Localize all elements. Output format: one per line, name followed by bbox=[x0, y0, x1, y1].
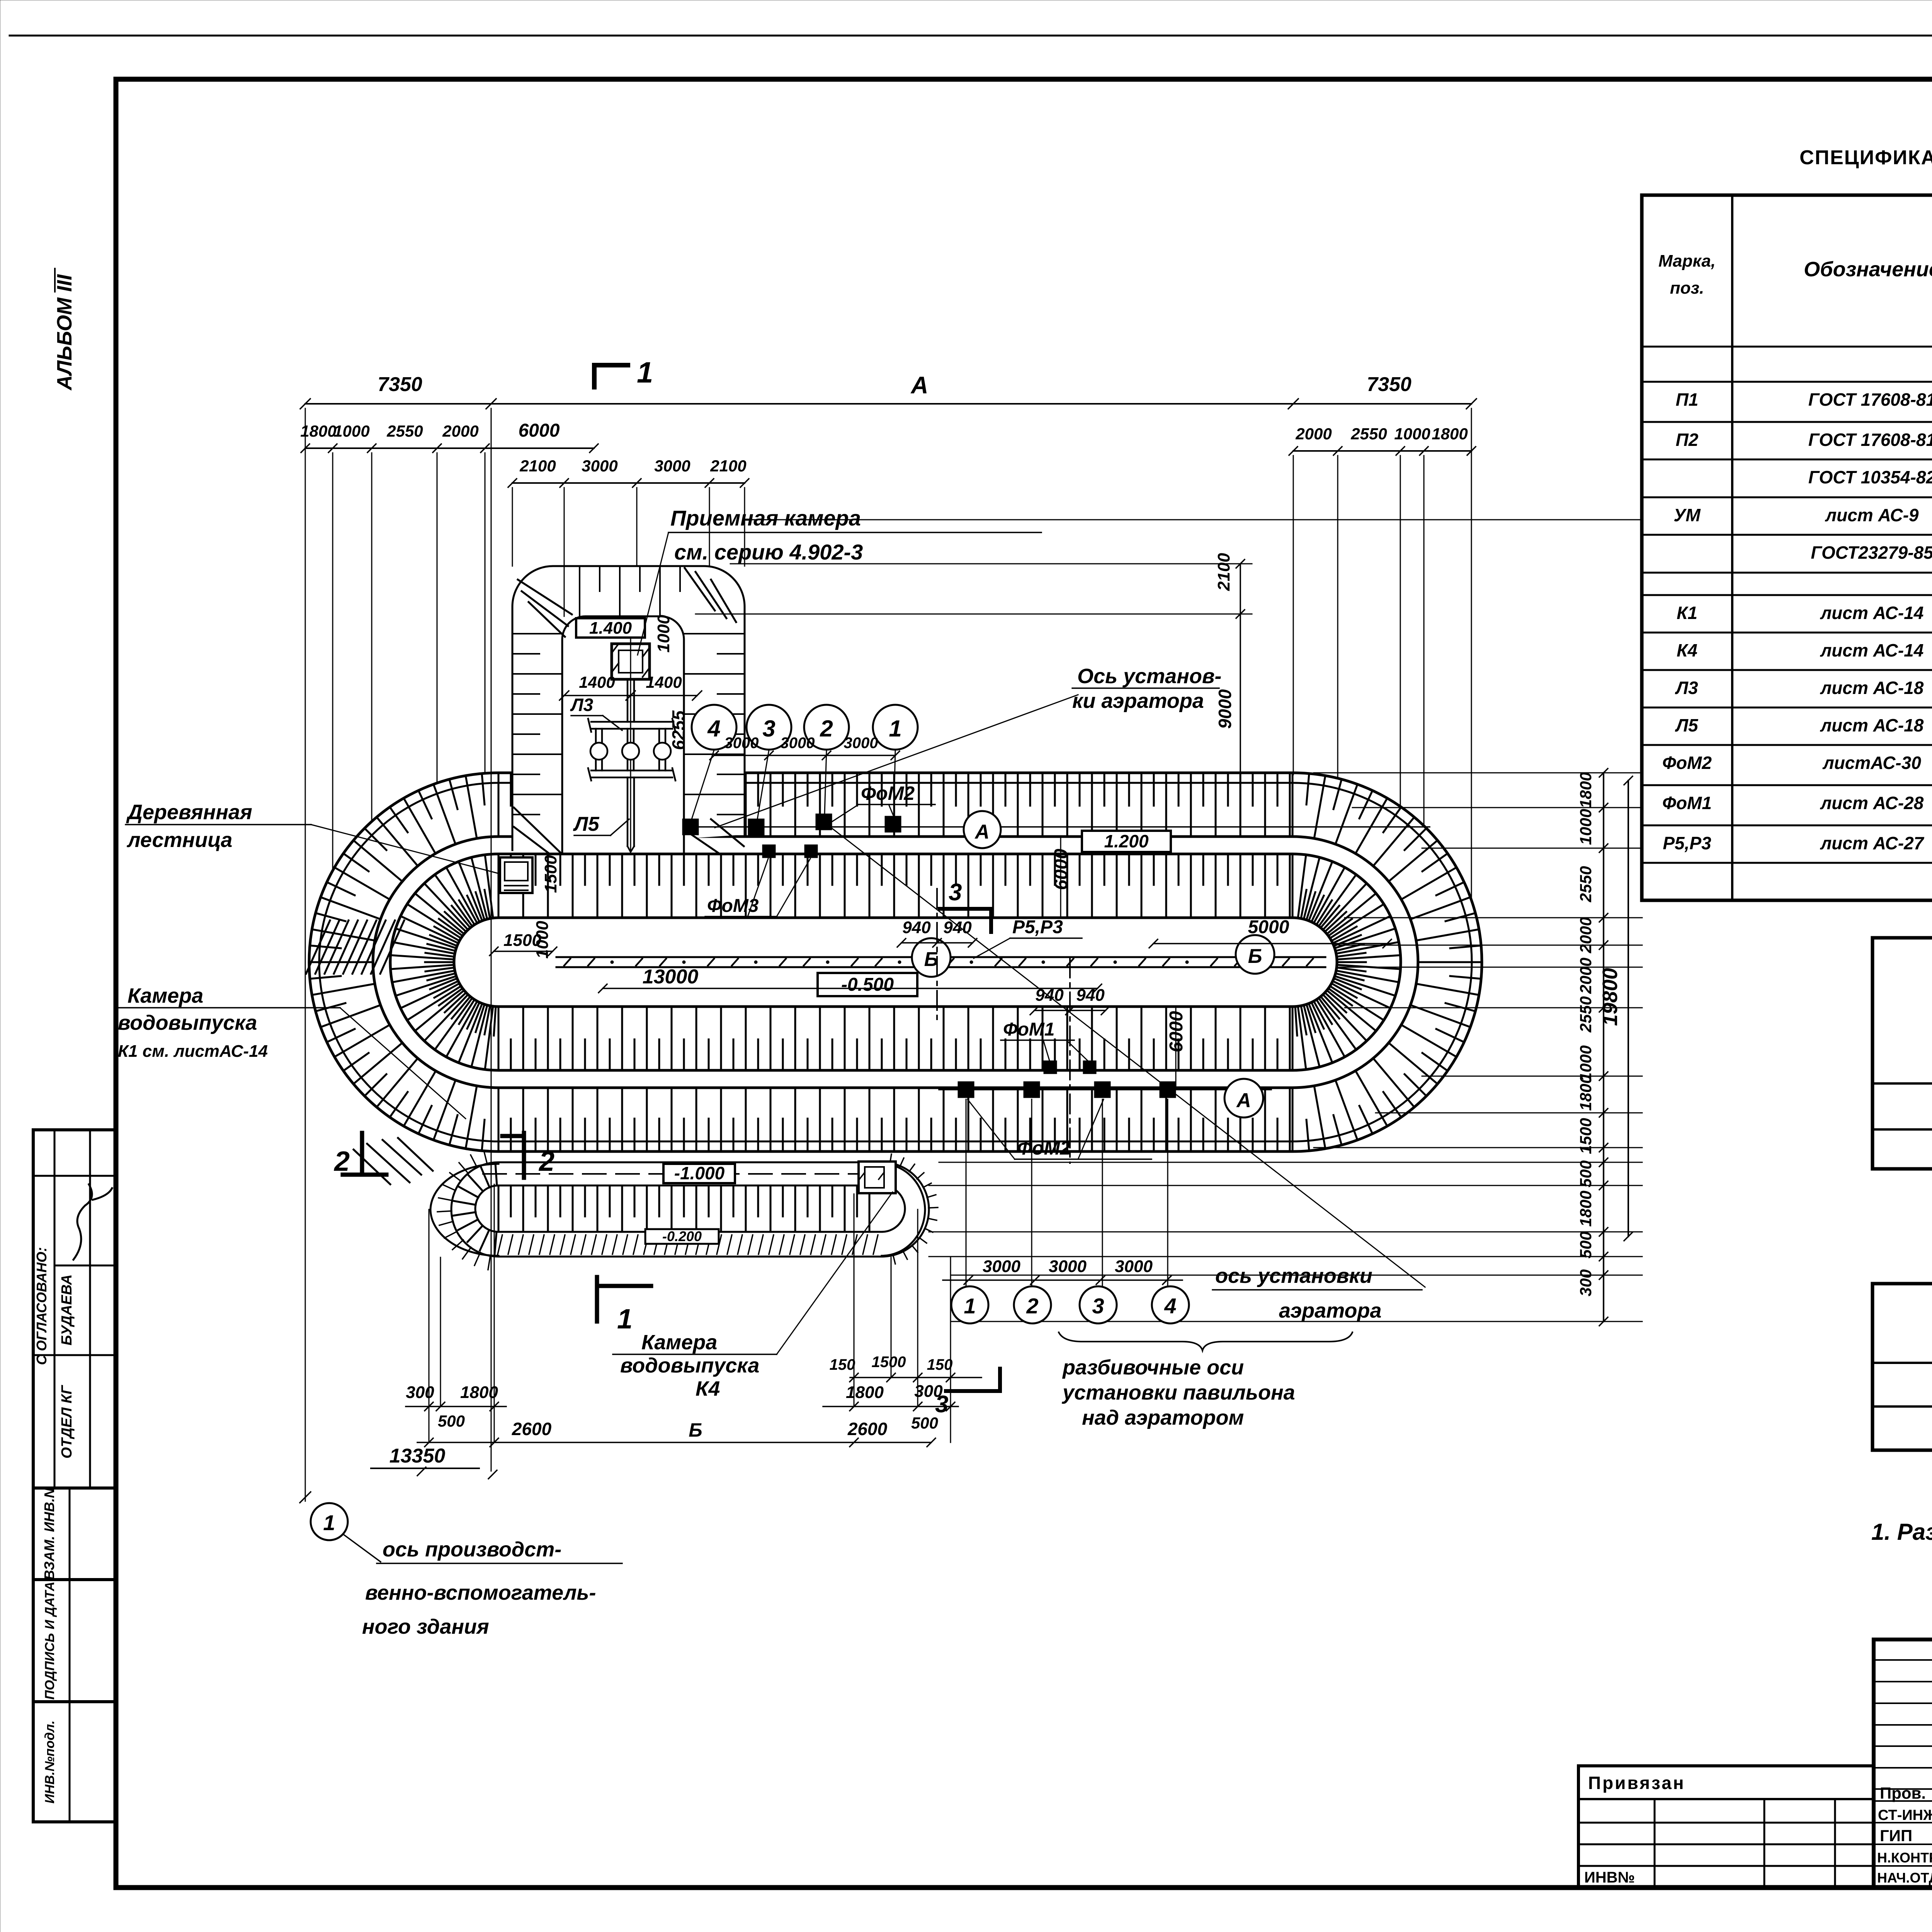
svg-text:П1: П1 bbox=[1676, 389, 1699, 410]
appendix dim line 2100 3000 3000 2100 bbox=[512, 482, 745, 484]
svg-text:2: 2 bbox=[820, 716, 833, 742]
ring channel outer wall bbox=[373, 837, 1418, 1088]
ring outer band hatch right cap bbox=[1292, 1088, 1294, 1151]
section mark 2 right bbox=[522, 1133, 526, 1178]
top dim line small left 1800 1000 2550 2000 6000 bbox=[305, 447, 594, 449]
elevation box 1.400 bbox=[576, 618, 645, 638]
svg-text:ОТДЕЛ КГ: ОТДЕЛ КГ bbox=[59, 1385, 75, 1459]
svg-text:см. серию 4.902-3: см. серию 4.902-3 bbox=[674, 540, 863, 564]
appendix hatch left leg bbox=[512, 633, 562, 634]
elevation box -0.200 bbox=[645, 1229, 719, 1244]
loop left cap outer berm arc bbox=[430, 1164, 498, 1256]
svg-text:7350: 7350 bbox=[378, 373, 422, 396]
svg-text:2100: 2100 bbox=[1214, 553, 1233, 591]
svg-text:2: 2 bbox=[538, 1146, 554, 1177]
svg-text:6000: 6000 bbox=[519, 420, 560, 441]
FoM3 squares bbox=[762, 845, 776, 858]
appendix hatch top band bbox=[579, 566, 580, 616]
svg-text:19800: 19800 bbox=[1599, 968, 1622, 1026]
svg-text:Р5,Р3: Р5,Р3 bbox=[1012, 917, 1063, 937]
svg-text:ГОСТ23279-85: ГОСТ23279-85 bbox=[1811, 543, 1932, 563]
svg-text:2000: 2000 bbox=[1295, 425, 1332, 443]
ring outer edge bbox=[309, 773, 1482, 1151]
svg-text:2: 2 bbox=[1026, 1294, 1038, 1318]
svg-text:1500: 1500 bbox=[1577, 1118, 1595, 1154]
svg-text:500: 500 bbox=[1577, 1160, 1595, 1187]
signature squiggle bbox=[73, 1184, 92, 1260]
vzam inv stamp box bbox=[33, 1488, 116, 1580]
svg-text:К1: К1 bbox=[1677, 603, 1697, 623]
circle A bottom bbox=[1225, 1079, 1263, 1117]
brace under circles bbox=[1059, 1332, 1352, 1350]
circle B left bbox=[912, 938, 951, 977]
svg-text:УМ: УМ bbox=[1673, 505, 1701, 525]
svg-text:ось производст-: ось производст- bbox=[383, 1538, 561, 1561]
loop mid band fan left cap bbox=[495, 1232, 497, 1254]
svg-text:2550: 2550 bbox=[1350, 425, 1387, 443]
loop dashed center line bbox=[483, 1173, 877, 1175]
svg-text:Б: Б bbox=[1248, 945, 1262, 968]
svg-text:Л5: Л5 bbox=[573, 813, 600, 835]
svg-text:СПЕЦИФИКАЦИЯ К СХЕМЕ РАСПОЛОЖЕ: СПЕЦИФИКАЦИЯ К СХЕМЕ РАСПОЛОЖЕНИЯ ЦОКА bbox=[1799, 146, 1932, 169]
svg-text:300: 300 bbox=[1577, 1269, 1595, 1296]
bottom dim 3000 x3 bbox=[943, 1279, 1182, 1281]
loop outer slope hatch left cap bbox=[488, 1255, 490, 1270]
loop right cap outer berm arc bbox=[882, 1164, 925, 1256]
svg-text:1800: 1800 bbox=[846, 1383, 884, 1402]
svg-text:940: 940 bbox=[943, 918, 972, 937]
svg-text:150: 150 bbox=[927, 1356, 953, 1373]
section mark 1 top bbox=[592, 365, 597, 387]
ring inner band hatch top straight bbox=[498, 854, 500, 918]
ring island edge bbox=[454, 918, 1337, 1007]
svg-text:Л5: Л5 bbox=[1675, 715, 1699, 735]
valve circles bbox=[590, 743, 607, 760]
svg-text:1: 1 bbox=[964, 1294, 976, 1318]
ring inner band hatch bottom straight bbox=[498, 1007, 500, 1070]
svg-text:3000: 3000 bbox=[582, 457, 617, 475]
appendix inner wall white channel bbox=[562, 616, 684, 852]
ring outer band hatch bottom straight bbox=[498, 1088, 500, 1151]
razmery table grid bbox=[1872, 938, 1932, 1169]
svg-text:разбивочные оси: разбивочные оси bbox=[1062, 1356, 1244, 1379]
svg-text:поз.: поз. bbox=[1670, 279, 1704, 298]
svg-text:1000: 1000 bbox=[654, 615, 673, 653]
svg-text:лист АС-27: лист АС-27 bbox=[1820, 833, 1925, 853]
svg-text:3000: 3000 bbox=[1049, 1257, 1087, 1276]
svg-text:лист АС-18: лист АС-18 bbox=[1820, 678, 1924, 698]
outer trim line top bbox=[10, 35, 1932, 37]
svg-text:лист АС-18: лист АС-18 bbox=[1820, 715, 1924, 735]
svg-text:Р5,Р3: Р5,Р3 bbox=[1663, 833, 1711, 853]
svg-text:Деревянная: Деревянная bbox=[126, 801, 252, 824]
svg-text:3000: 3000 bbox=[724, 735, 759, 752]
svg-text:1000: 1000 bbox=[333, 422, 369, 440]
dim 1500 island tip bbox=[494, 951, 553, 952]
svg-text:13000: 13000 bbox=[643, 966, 699, 988]
dim 1400 1400 at chamber bbox=[564, 695, 697, 696]
loop mid band hatch bbox=[498, 1185, 500, 1232]
divider wall strip P5 P3 bbox=[556, 956, 1325, 958]
svg-text:1500: 1500 bbox=[541, 855, 560, 893]
vertical chain 2100 9000 bbox=[1240, 564, 1241, 781]
svg-text:Л3: Л3 bbox=[570, 695, 594, 715]
appendix corner hatch bbox=[522, 591, 568, 626]
svg-text:А: А bbox=[910, 372, 929, 399]
loop channel lines bbox=[498, 1185, 882, 1187]
loop outer slope hatch bottom bbox=[498, 1235, 502, 1254]
svg-text:3: 3 bbox=[1092, 1294, 1104, 1318]
horizontal extension lines right bbox=[746, 519, 1642, 520]
svg-text:940: 940 bbox=[902, 918, 931, 937]
ring outer band hatch left cap bbox=[498, 1088, 500, 1151]
loop outer stadium white fill bbox=[451, 1162, 929, 1257]
svg-text:Б: Б bbox=[689, 1419, 702, 1441]
svg-text:ПОДПИСЬ И ДАТА: ПОДПИСЬ И ДАТА bbox=[43, 1582, 57, 1700]
axis circle 1 bottom left bbox=[311, 1503, 348, 1540]
svg-text:лист АС-14: лист АС-14 bbox=[1820, 603, 1924, 623]
appendix hatch right leg bbox=[684, 633, 745, 634]
overall dim 19800 bbox=[1628, 781, 1629, 1236]
svg-text:Привязан: Привязан bbox=[1588, 1773, 1685, 1793]
outlet chamber K4 square bbox=[859, 1162, 896, 1193]
svg-text:3: 3 bbox=[935, 1391, 948, 1418]
svg-text:-0.500: -0.500 bbox=[841, 975, 894, 995]
elevation box -1.000 bbox=[663, 1164, 735, 1183]
bottom axis circles 1 2 3 4 bbox=[951, 1286, 988, 1323]
svg-text:1: 1 bbox=[323, 1510, 335, 1535]
svg-text:500: 500 bbox=[911, 1414, 938, 1432]
lotok L5 pipe bbox=[627, 777, 629, 846]
svg-text:лист АС-28: лист АС-28 bbox=[1820, 793, 1924, 813]
ground hatch junction left bbox=[367, 1144, 410, 1182]
svg-text:лист АС-9: лист АС-9 bbox=[1825, 505, 1918, 525]
svg-text:над аэратором: над аэратором bbox=[1082, 1406, 1244, 1429]
svg-text:ки аэратора: ки аэратора bbox=[1072, 689, 1204, 713]
svg-text:Приемная камера: Приемная камера bbox=[670, 506, 861, 530]
svg-text:венно-вспомогатель-: венно-вспомогатель- bbox=[365, 1581, 596, 1604]
svg-text:9000: 9000 bbox=[1215, 689, 1235, 729]
svg-text:4: 4 bbox=[707, 716, 720, 742]
svg-text:-0.200: -0.200 bbox=[662, 1228, 702, 1244]
svg-text:Камера: Камера bbox=[128, 984, 203, 1007]
bottom axis vertical lines bbox=[966, 1099, 967, 1287]
svg-text:листАС-30: листАС-30 bbox=[1822, 753, 1921, 773]
svg-text:лист АС-14: лист АС-14 bbox=[1820, 640, 1924, 660]
dim 940 940 lower bbox=[1034, 1010, 1105, 1011]
svg-text:А: А bbox=[974, 821, 990, 843]
svg-text:1800: 1800 bbox=[1577, 1190, 1595, 1226]
svg-text:1000: 1000 bbox=[1577, 809, 1595, 845]
svg-text:1.400: 1.400 bbox=[589, 619, 632, 638]
dim 5000 bbox=[1153, 943, 1387, 944]
distribution manifold L3 bbox=[591, 721, 672, 723]
svg-text:установки павильона: установки павильона bbox=[1061, 1381, 1295, 1404]
privyazan grid bbox=[1578, 1822, 1874, 1824]
ring outer band hatch top straight bbox=[498, 773, 500, 837]
svg-text:1.200: 1.200 bbox=[1104, 831, 1149, 851]
ring inner band fan left cap bbox=[498, 1007, 500, 1070]
ring inner band fan right cap bbox=[1292, 1007, 1294, 1070]
svg-text:940: 940 bbox=[1076, 986, 1105, 1005]
svg-text:С ОГЛАСОВАНО:: С ОГЛАСОВАНО: bbox=[34, 1247, 49, 1365]
svg-text:500: 500 bbox=[438, 1412, 465, 1430]
dim 150 1500 150 bbox=[850, 1377, 981, 1378]
axis dim 3000 x3 bbox=[714, 755, 895, 756]
ladder square bbox=[500, 857, 532, 893]
overline on III bbox=[54, 269, 56, 292]
svg-text:2600: 2600 bbox=[847, 1419, 888, 1439]
FoM2 squares bottom row bbox=[958, 1082, 974, 1098]
appendix outer shape white fill bbox=[512, 566, 745, 850]
svg-text:АЛЬБОМ III: АЛЬБОМ III bbox=[53, 274, 76, 391]
svg-text:Ось установ-: Ось установ- bbox=[1077, 665, 1221, 688]
svg-text:2100: 2100 bbox=[710, 457, 746, 475]
upper aerator axis dash dot bbox=[936, 889, 938, 1020]
svg-text:водовыпуска: водовыпуска bbox=[118, 1011, 257, 1034]
svg-text:ИНВ.№подл.: ИНВ.№подл. bbox=[43, 1720, 57, 1803]
svg-text:1400: 1400 bbox=[579, 673, 615, 691]
elevation box -0.500 bbox=[818, 973, 917, 996]
svg-text:3000: 3000 bbox=[1115, 1257, 1153, 1276]
svg-text:ГИП: ГИП bbox=[1880, 1827, 1912, 1845]
FoM1 squares bbox=[1044, 1061, 1057, 1074]
svg-text:ГОСТ 10354-82: ГОСТ 10354-82 bbox=[1808, 467, 1932, 487]
inlet pipe bbox=[627, 679, 629, 722]
svg-text:Н.КОНТР: Н.КОНТР bbox=[1877, 1850, 1932, 1866]
inv n podl stamp box bbox=[33, 1702, 116, 1822]
svg-text:1800: 1800 bbox=[1577, 772, 1595, 808]
privyazan box bbox=[1578, 1764, 1874, 1767]
svg-text:Л3: Л3 bbox=[1675, 678, 1698, 698]
right dim chain bbox=[1603, 773, 1604, 1321]
svg-text:1000: 1000 bbox=[533, 921, 552, 959]
svg-text:3000: 3000 bbox=[781, 735, 815, 752]
earthwork table grid bbox=[1872, 1284, 1932, 1450]
title block outer bbox=[1874, 1639, 1932, 1888]
svg-text:1: 1 bbox=[889, 716, 901, 742]
svg-text:ФоМ1: ФоМ1 bbox=[1003, 1019, 1054, 1040]
loop extension verticals bbox=[429, 1209, 430, 1442]
circle A top bbox=[964, 811, 1001, 848]
svg-text:2000: 2000 bbox=[1577, 957, 1595, 994]
svg-text:Марка,: Марка, bbox=[1658, 252, 1716, 270]
svg-text:1800: 1800 bbox=[1432, 425, 1468, 443]
svg-text:2: 2 bbox=[333, 1146, 350, 1177]
svg-text:ФоМ2: ФоМ2 bbox=[1017, 1137, 1071, 1159]
axis leader lines down to squares bbox=[692, 750, 714, 819]
svg-text:водовыпуска: водовыпуска bbox=[620, 1354, 759, 1377]
ring channel inner wall bbox=[390, 854, 1401, 1070]
axis circles 4 3 2 1 bbox=[692, 705, 736, 750]
svg-text:500: 500 bbox=[1577, 1231, 1595, 1259]
lower collector bbox=[591, 770, 672, 772]
svg-text:ось установки: ось установки bbox=[1215, 1264, 1372, 1287]
svg-text:4: 4 bbox=[1164, 1294, 1176, 1318]
svg-text:300: 300 bbox=[406, 1383, 434, 1402]
loop outer slope hatch right cap bbox=[890, 1154, 891, 1163]
spec table grid bbox=[1642, 195, 1932, 900]
svg-text:Пров.: Пров. bbox=[1880, 1784, 1926, 1802]
svg-text:А: А bbox=[1236, 1089, 1251, 1112]
loop bottom dim line 2 bbox=[417, 1442, 931, 1443]
loop bottom dim lines 300 1800 bbox=[406, 1406, 506, 1407]
svg-text:2100: 2100 bbox=[519, 457, 556, 475]
svg-text:Обозначение: Обозначение bbox=[1804, 258, 1932, 281]
svg-text:3: 3 bbox=[949, 879, 962, 906]
svg-text:3000: 3000 bbox=[844, 735, 878, 752]
ring outer edge second line bbox=[319, 783, 1472, 1141]
svg-text:ФоМ2: ФоМ2 bbox=[1662, 753, 1712, 773]
receiving chamber square bbox=[612, 644, 650, 679]
svg-text:150: 150 bbox=[830, 1356, 855, 1373]
svg-text:2000: 2000 bbox=[442, 422, 478, 440]
section mark 1 bottom bbox=[595, 1277, 599, 1321]
svg-text:аэратора: аэратора bbox=[1279, 1299, 1381, 1322]
podpis i data stamp box bbox=[33, 1580, 116, 1702]
svg-text:П2: П2 bbox=[1676, 430, 1699, 450]
svg-text:1500: 1500 bbox=[872, 1354, 906, 1371]
svg-text:7350: 7350 bbox=[1367, 373, 1412, 396]
dim 940 940 upper bbox=[901, 942, 973, 944]
top dim line 7350 A 7350 bbox=[305, 403, 1471, 405]
svg-text:лестница: лестница bbox=[126, 828, 232, 852]
svg-text:2600: 2600 bbox=[512, 1419, 552, 1439]
extension lines appendix top to chain bbox=[730, 563, 1252, 565]
aerator axis line top through squares bbox=[684, 826, 1430, 828]
svg-text:1800: 1800 bbox=[1577, 1075, 1595, 1111]
svg-text:2550: 2550 bbox=[1577, 866, 1595, 902]
svg-text:ГОСТ 17608-81: ГОСТ 17608-81 bbox=[1808, 389, 1932, 410]
svg-text:1000: 1000 bbox=[1394, 425, 1430, 443]
svg-text:2000: 2000 bbox=[1577, 917, 1595, 953]
svg-text:СТ-ИНЖ.: СТ-ИНЖ. bbox=[1878, 1807, 1932, 1823]
circle B right bbox=[1236, 935, 1274, 974]
svg-text:К4: К4 bbox=[1677, 640, 1697, 660]
svg-text:1: 1 bbox=[637, 356, 653, 389]
svg-text:3000: 3000 bbox=[983, 1257, 1020, 1276]
aerator axis line bottom through squares bbox=[939, 1089, 1271, 1090]
svg-text:2550: 2550 bbox=[386, 422, 423, 440]
svg-text:1: 1 bbox=[617, 1304, 633, 1335]
svg-text:2550: 2550 bbox=[1577, 996, 1595, 1032]
svg-text:ВЗАМ. ИНВ.N: ВЗАМ. ИНВ.N bbox=[41, 1488, 57, 1580]
svg-text:К1 см. листАС-14: К1 см. листАС-14 bbox=[118, 1042, 268, 1061]
dim 13000 bbox=[603, 988, 1097, 989]
chamber axis line bbox=[630, 638, 631, 852]
svg-text:ГОСТ 17608-81: ГОСТ 17608-81 bbox=[1808, 430, 1932, 450]
svg-text:6255: 6255 bbox=[668, 710, 689, 750]
svg-text:ФоМ2: ФоМ2 bbox=[861, 782, 915, 804]
FoM2 squares top row bbox=[682, 819, 699, 835]
svg-text:3000: 3000 bbox=[654, 457, 690, 475]
svg-text:1. Разрезы см. на листе АС-9.: 1. Разрезы см. на листе АС-9. bbox=[1871, 1519, 1932, 1545]
svg-text:ФоМ1: ФоМ1 bbox=[1662, 793, 1712, 813]
lower aerator axis dash dot bbox=[1069, 958, 1071, 1163]
svg-text:ИНВ№: ИНВ№ bbox=[1584, 1869, 1635, 1886]
svg-text:3: 3 bbox=[762, 716, 775, 742]
extension lines from top dims bbox=[305, 408, 306, 1501]
svg-text:13350: 13350 bbox=[389, 1445, 446, 1467]
svg-text:К4: К4 bbox=[696, 1377, 720, 1400]
elevation box 1.200 bbox=[1082, 831, 1171, 852]
svg-text:1400: 1400 bbox=[646, 673, 682, 691]
svg-text:БУДАЕВА: БУДАЕВА bbox=[59, 1274, 75, 1345]
ladder slope hatch patch bbox=[306, 920, 330, 974]
soglasovano stamp block bbox=[33, 1130, 116, 1488]
top dim line small right 2000 2550 1000 1800 bbox=[1293, 450, 1471, 452]
appendix to ring transition diagonals bbox=[514, 808, 561, 853]
svg-text:НАЧ.ОТД: НАЧ.ОТД bbox=[1877, 1870, 1932, 1886]
svg-text:5000: 5000 bbox=[1248, 917, 1289, 937]
svg-text:-1.000: -1.000 bbox=[674, 1163, 725, 1183]
svg-text:ного здания: ного здания bbox=[362, 1615, 489, 1638]
svg-text:Камера: Камера bbox=[641, 1331, 717, 1354]
svg-text:1800: 1800 bbox=[460, 1383, 498, 1402]
svg-text:Б: Б bbox=[924, 948, 939, 971]
